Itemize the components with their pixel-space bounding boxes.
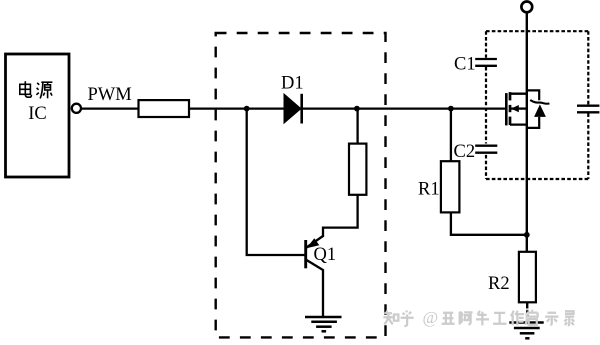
transistor Q1 (PNP) emitter lead with arrow	[306, 236, 323, 248]
dashed box: MOSFET model boundary (left edge, interrupted by C1, C2)	[485, 31, 487, 179]
watermark glyph 工	[493, 313, 506, 324]
drain terminal circle (top)	[521, 2, 532, 13]
body diode branch (top wire)	[527, 90, 539, 100]
MOSFET channel bar (three segments)	[509, 92, 512, 125]
wire: resistor bottom to Q1 emitter (zigzag)	[323, 195, 358, 237]
svg-text:C2: C2	[454, 142, 476, 162]
MOSFET source connection	[510, 123, 527, 125]
PWM output terminal circle	[72, 104, 81, 113]
ground (R2 bottom)	[509, 323, 543, 339]
MOSFET drain connection	[510, 93, 527, 95]
node C junction dot (R1 branch)	[448, 106, 454, 112]
watermark glyph 牛	[476, 311, 489, 326]
node B junction dot (resistor branch)	[354, 106, 360, 112]
dashed box: MOSFET model boundary (right edge, interrupted by Cds cap)	[587, 31, 589, 179]
dashed box: MOSFET model boundary (bottom edge)	[486, 178, 588, 180]
MOSFET gate bar	[505, 93, 508, 125]
node A junction dot (base branch)	[244, 106, 250, 112]
label 源 (power IC text)	[36, 82, 52, 98]
transistor Q1 base bar	[304, 240, 307, 268]
body diode triangle	[534, 104, 546, 117]
watermark 知乎 @丑阿牛工作启示录	[383, 310, 574, 326]
wire: terminal to series resistor	[81, 107, 138, 109]
wire: node B down to resistor	[356, 109, 358, 144]
watermark glyph 录	[564, 311, 574, 325]
wire: drain rail (top terminal to R2)	[526, 12, 528, 252]
svg-text:Q1: Q1	[314, 245, 337, 265]
diode D1	[284, 94, 302, 124]
body diode branch (bottom wire)	[527, 117, 539, 128]
capacitor (unlabeled, drain-source)	[577, 106, 599, 113]
wire: series resistor to D1 anode	[189, 107, 284, 109]
svg-text:@: @	[423, 308, 439, 327]
capacitor C2	[475, 146, 497, 153]
wire: R1 bottom to node D	[451, 212, 527, 234]
resistor (unlabeled, in dashed box)	[349, 144, 366, 195]
svg-text:R1: R1	[418, 179, 440, 199]
wire: D1 cathode to MOSFET gate	[302, 107, 507, 109]
ground (Q1 collector)	[305, 317, 342, 331]
watermark glyph 丑	[442, 313, 455, 324]
node D junction dot (R2 top)	[524, 232, 530, 238]
watermark glyph 作	[511, 311, 524, 326]
resistor R1	[441, 161, 460, 212]
watermark glyph 乎	[401, 310, 414, 326]
watermark overlap lightening on R2 ground stub	[526, 308, 529, 318]
watermark glyph 阿	[460, 312, 473, 325]
wire: node C down to R1	[450, 109, 452, 162]
capacitor C1	[475, 59, 497, 66]
MOSFET bulk connection with arrow	[511, 105, 527, 112]
svg-text:C1: C1	[454, 55, 476, 75]
watermark glyph 知	[383, 311, 398, 325]
svg-text:PWM: PWM	[88, 85, 132, 105]
body diode cathode (curved bar)	[530, 100, 549, 104]
label 电 (power IC text)	[20, 81, 32, 97]
wire: R2 bottom to ground	[526, 302, 528, 322]
svg-text:D1: D1	[281, 74, 304, 94]
power IC box (电源 IC)	[6, 54, 70, 177]
wire: node A down and right to Q1 base	[247, 109, 305, 255]
transistor Q1 collector lead	[307, 260, 324, 317]
svg-text:R2: R2	[488, 274, 510, 294]
watermark glyph 示	[545, 313, 558, 325]
series gate resistor (unlabeled)	[139, 100, 190, 117]
watermark glyph 启	[525, 310, 537, 325]
svg-text:IC: IC	[28, 104, 47, 124]
dashed box: MOSFET model boundary (top edge)	[486, 30, 588, 32]
resistor R2	[519, 252, 536, 302]
dashed box: snubber / driver network	[216, 33, 386, 337]
